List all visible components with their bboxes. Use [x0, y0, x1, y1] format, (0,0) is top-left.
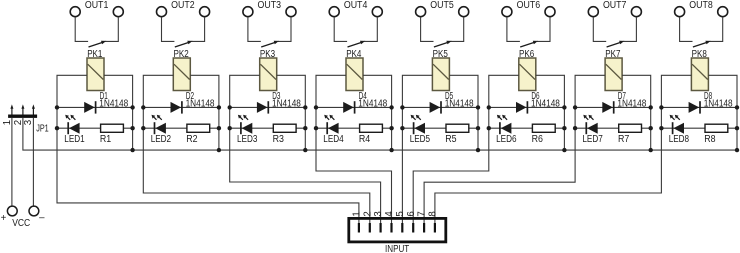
junction channel 8 left rail / LED row — [659, 126, 663, 130]
label D3 — [272, 91, 280, 102]
junction channel 7 right rail / bus — [649, 148, 653, 152]
relay PK6 coil — [519, 58, 536, 91]
junction channel 8 left rail / diode row — [659, 105, 663, 109]
relay PK2 coil — [173, 58, 190, 91]
wire channel 3 left rail and run to INPUT pin 3 — [230, 75, 381, 224]
svg-text:LED6: LED6 — [496, 134, 516, 145]
junction channel 5 right rail / diode row — [476, 105, 480, 109]
svg-text:R1: R1 — [100, 134, 111, 145]
svg-text:LED2: LED2 — [151, 134, 171, 145]
wire diode D8 row — [661, 106, 737, 108]
label R5 — [445, 134, 456, 145]
wire OUT4 left terminal to contact — [334, 17, 347, 41]
junction channel 2 right rail / LED row — [217, 126, 221, 130]
relay contact (switch blade) of PK4 — [348, 41, 366, 47]
terminal OUT5 right — [459, 7, 469, 17]
label PK7 — [605, 49, 620, 60]
wire LED2/R2 row — [143, 127, 219, 129]
label + — [1, 213, 7, 224]
diode D2 1N4148 — [171, 101, 182, 113]
resistor R4 — [360, 124, 383, 132]
label LED5 — [410, 134, 430, 145]
label R7 — [618, 134, 629, 145]
label R3 — [273, 134, 284, 145]
relay contact (switch blade) of PK1 — [89, 41, 107, 47]
wire OUT5 right terminal to contact — [451, 17, 464, 41]
connector INPUT pin 5 — [401, 223, 403, 233]
label PK5 — [433, 49, 448, 60]
junction channel 4 right rail / diode row — [389, 105, 393, 109]
label VCC — [12, 218, 30, 229]
wire diode D5 row — [402, 106, 478, 108]
junction channel 1 left rail / diode row — [55, 105, 59, 109]
label OUT5 — [430, 0, 454, 11]
svg-text:1N4148: 1N4148 — [704, 98, 733, 109]
junction channel 3 left rail / LED row — [228, 126, 232, 130]
wire channel 6 left rail and run to INPUT pin 6 — [413, 75, 519, 224]
junction channel 1 left rail / LED row — [55, 126, 59, 130]
terminal OUT7 right — [631, 7, 641, 17]
wire OUT1 left terminal to contact — [75, 17, 88, 41]
svg-text:OUT8: OUT8 — [689, 0, 713, 11]
junction channel 4 right rail / bus — [389, 148, 393, 152]
wire diode D3 row — [230, 106, 306, 108]
label OUT6 — [517, 0, 541, 11]
label JP1 pin number 3 — [23, 120, 34, 125]
svg-text:1N4148: 1N4148 — [445, 98, 474, 109]
svg-text:R7: R7 — [618, 134, 629, 145]
svg-text:1: 1 — [2, 120, 13, 125]
wire diode D4 row — [316, 106, 392, 108]
label - — [39, 212, 45, 223]
wire LED6/R6 row — [489, 127, 565, 129]
wire LED8/R8 row — [661, 127, 737, 129]
wire OUT4 right terminal to contact — [364, 17, 377, 41]
LED LED2 — [152, 115, 166, 134]
junction channel 1 right rail / LED row — [130, 126, 134, 130]
label INPUT pin number 4 — [384, 211, 395, 217]
svg-text:1N4148: 1N4148 — [358, 98, 387, 109]
svg-text:5: 5 — [395, 211, 406, 216]
wire channel 7 left rail and run to INPUT pin 7 — [424, 75, 605, 224]
svg-text:R8: R8 — [704, 134, 715, 145]
relay PK1 coil — [87, 58, 104, 91]
wire LED1/R1 row — [57, 127, 133, 129]
wire OUT8 right terminal to contact — [710, 17, 723, 41]
wire OUT3 right terminal to contact — [278, 17, 291, 41]
resistor R3 — [273, 124, 296, 132]
wire OUT7 left terminal to contact — [593, 17, 606, 41]
resistor R6 — [532, 124, 555, 132]
wire diode D1 row — [57, 106, 133, 108]
relay contact (switch blade) of PK5 — [434, 41, 452, 47]
label LED1 — [64, 134, 84, 145]
wire OUT5 left terminal to contact — [421, 17, 434, 41]
label INPUT pin number 2 — [362, 211, 373, 216]
junction channel 2 left rail / LED row — [141, 126, 145, 130]
svg-text:OUT3: OUT3 — [258, 0, 282, 11]
label D2 — [186, 91, 194, 102]
svg-text:VCC: VCC — [12, 218, 30, 229]
terminal OUT8 right — [718, 7, 728, 17]
label 1N4148 value of D5 — [445, 98, 474, 109]
wire channel 8 left rail and run to INPUT pin 8 — [435, 75, 692, 224]
junction channel 1 right rail / diode row — [130, 105, 134, 109]
wire channel 4 right rail down to bus — [363, 75, 392, 150]
junction channel 3 right rail / LED row — [303, 126, 307, 130]
svg-text:1N4148: 1N4148 — [186, 98, 215, 109]
label D6 — [531, 91, 539, 102]
label OUT2 — [171, 0, 195, 11]
wire JP1 pin3 to - terminal — [32, 118, 34, 206]
resistor R2 — [187, 124, 210, 132]
label OUT8 — [689, 0, 713, 11]
label INPUT pin number 6 — [406, 211, 417, 216]
connector INPUT pin 3 — [380, 223, 382, 233]
svg-text:R5: R5 — [445, 134, 456, 145]
svg-text:R2: R2 — [186, 134, 197, 145]
svg-text:1: 1 — [352, 211, 363, 216]
label OUT1 — [85, 0, 109, 11]
svg-text:LED1: LED1 — [64, 134, 84, 145]
junction channel 7 left rail / diode row — [573, 105, 577, 109]
diode D8 1N4148 — [689, 101, 700, 113]
label PK1 — [87, 49, 102, 60]
label 1N4148 value of D8 — [704, 98, 733, 109]
wire LED3/R3 row — [230, 127, 306, 129]
relay PK4 coil — [346, 58, 363, 91]
label D8 — [704, 91, 712, 102]
wire LED5/R5 row — [402, 127, 478, 129]
wire LED7/R7 row — [575, 127, 651, 129]
label LED7 — [582, 134, 602, 145]
junction channel 6 left rail / LED row — [487, 126, 491, 130]
relay contact (switch blade) of PK8 — [693, 41, 711, 47]
junction channel 3 right rail / bus — [303, 148, 307, 152]
label D5 — [445, 91, 453, 102]
svg-text:LED8: LED8 — [669, 134, 689, 145]
junction channel 7 right rail / diode row — [649, 105, 653, 109]
label OUT4 — [344, 0, 368, 11]
wire channel 8 right rail down to bus — [708, 75, 737, 150]
junction channel 3 left rail / diode row — [228, 105, 232, 109]
junction channel 7 right rail / LED row — [649, 126, 653, 130]
relay PK5 coil — [432, 58, 449, 91]
label LED2 — [151, 134, 171, 145]
label JP1 — [36, 123, 49, 134]
svg-text:1N4148: 1N4148 — [531, 98, 560, 109]
terminal OUT1 left — [70, 7, 80, 17]
label OUT3 — [258, 0, 282, 11]
resistor R8 — [705, 124, 728, 132]
label 1N4148 value of D1 — [99, 98, 128, 109]
label JP1 pin number 2 — [13, 120, 24, 125]
svg-text:+: + — [1, 213, 7, 224]
terminal VCC + — [7, 206, 17, 216]
connector JP1 pin 1 — [10, 104, 13, 114]
junction channel 8 right rail / bus — [735, 148, 739, 152]
connector INPUT pin 1 — [358, 223, 360, 233]
diode D4 1N4148 — [343, 101, 354, 113]
wire diode D6 row — [489, 106, 565, 108]
label R4 — [359, 134, 371, 145]
label INPUT — [385, 244, 409, 253]
label PK3 — [260, 49, 275, 60]
LED LED6 — [497, 115, 512, 134]
label LED6 — [496, 134, 516, 145]
svg-text:OUT1: OUT1 — [85, 0, 109, 11]
junction channel 7 left rail / LED row — [573, 126, 577, 130]
junction channel 4 left rail / diode row — [314, 105, 318, 109]
svg-text:OUT7: OUT7 — [603, 0, 627, 11]
junction channel 5 left rail / diode row — [400, 105, 404, 109]
junction channel 5 right rail / bus — [476, 148, 480, 152]
svg-text:OUT4: OUT4 — [344, 0, 368, 11]
relay PK7 coil — [605, 58, 622, 91]
connector JP1 pin 3 — [32, 104, 35, 114]
wire channel 3 right rail down to bus — [277, 75, 306, 150]
junction channel 8 right rail / LED row — [735, 126, 739, 130]
terminal OUT8 left — [675, 7, 685, 17]
terminal OUT4 right — [372, 7, 382, 17]
wire channel 2 right rail down to bus — [190, 75, 219, 150]
wire OUT3 left terminal to contact — [248, 17, 261, 41]
label 1N4148 value of D6 — [531, 98, 560, 109]
wire channel 7 right rail down to bus — [622, 75, 651, 150]
svg-text:4: 4 — [384, 211, 395, 217]
svg-text:3: 3 — [373, 211, 384, 216]
diode D5 1N4148 — [430, 101, 441, 113]
wire OUT7 right terminal to contact — [623, 17, 636, 41]
wire channel 4 left rail and run to INPUT pin 4 — [316, 75, 392, 224]
terminal OUT3 left — [243, 7, 253, 17]
svg-text:3: 3 — [23, 120, 34, 125]
svg-text:LED3: LED3 — [237, 134, 257, 145]
junction channel 2 right rail / diode row — [217, 105, 221, 109]
svg-text:R3: R3 — [273, 134, 284, 145]
label LED8 — [669, 134, 689, 145]
LED LED7 — [583, 115, 597, 134]
wire JP1 pin1 to + terminal — [11, 118, 13, 206]
label INPUT pin number 5 — [395, 211, 406, 216]
label PK2 — [174, 49, 189, 60]
wire channel 1 left rail and run to INPUT pin 1 — [57, 75, 359, 224]
label R8 — [704, 134, 715, 145]
label LED3 — [237, 134, 257, 145]
connector INPUT pin 2 — [369, 223, 371, 233]
wire OUT6 right terminal to contact — [537, 17, 550, 41]
LED LED5 — [411, 115, 425, 134]
label R2 — [186, 134, 197, 145]
wire channel 5 left rail straight to INPUT pin 5 — [402, 75, 432, 224]
relay PK3 coil — [260, 58, 277, 91]
svg-text:JP1: JP1 — [36, 123, 49, 134]
svg-text:LED5: LED5 — [410, 134, 430, 145]
relay contact (switch blade) of PK2 — [175, 41, 193, 47]
svg-text:8: 8 — [428, 211, 439, 216]
svg-text:INPUT: INPUT — [385, 244, 409, 253]
terminal OUT2 right — [200, 7, 210, 17]
LED LED4 — [324, 115, 338, 134]
diode D1 1N4148 — [84, 101, 95, 113]
svg-text:R4: R4 — [359, 134, 371, 145]
terminal OUT5 left — [416, 7, 426, 17]
junction channel 5 left rail / LED row — [400, 126, 404, 130]
junction channel 5 right rail / LED row — [476, 126, 480, 130]
label 1N4148 value of D2 — [186, 98, 215, 109]
relay PK8 coil — [691, 58, 708, 91]
label 1N4148 value of D7 — [617, 98, 646, 109]
label INPUT pin number 1 — [352, 211, 363, 216]
wire diode D7 row — [575, 106, 651, 108]
junction channel 6 right rail / LED row — [562, 126, 566, 130]
svg-text:OUT6: OUT6 — [517, 0, 541, 11]
terminal OUT1 right — [113, 7, 123, 17]
junction channel 1 right rail / bus — [130, 148, 134, 152]
resistor R7 — [619, 124, 642, 132]
wire channel 6 right rail down to bus — [536, 75, 565, 150]
label D4 — [359, 91, 368, 102]
wire channel 5 right rail down to bus — [449, 75, 478, 150]
svg-text:LED4: LED4 — [323, 134, 344, 145]
svg-text:R6: R6 — [532, 134, 543, 145]
wire OUT1 right terminal to contact — [105, 17, 118, 41]
wire channel 1 right rail down to bus — [104, 75, 133, 150]
wire LED4/R4 row — [316, 127, 392, 129]
wire OUT2 left terminal to contact — [162, 17, 175, 41]
terminal VCC - — [29, 206, 39, 216]
wire OUT2 right terminal to contact — [191, 17, 204, 41]
wire JP1 pin2 common bus to all relay rails — [23, 118, 737, 150]
junction channel 4 left rail / LED row — [314, 126, 318, 130]
junction channel 8 right rail / diode row — [735, 105, 739, 109]
junction channel 2 right rail / bus — [217, 148, 221, 152]
label R1 — [100, 134, 111, 145]
label OUT7 — [603, 0, 627, 11]
LED LED1 — [65, 115, 79, 134]
svg-text:1N4148: 1N4148 — [617, 98, 646, 109]
label INPUT pin number 8 — [428, 211, 439, 216]
wire OUT8 left terminal to contact — [680, 17, 693, 41]
label INPUT pin number 7 — [417, 211, 428, 216]
label 1N4148 value of D4 — [358, 98, 387, 109]
junction channel 3 right rail / diode row — [303, 105, 307, 109]
label LED4 — [323, 134, 344, 145]
junction channel 6 right rail / bus — [562, 148, 566, 152]
svg-text:2: 2 — [362, 211, 373, 216]
relay contact (switch blade) of PK7 — [607, 41, 625, 47]
relay contact (switch blade) of PK3 — [261, 41, 279, 47]
junction channel 4 right rail / LED row — [389, 126, 393, 130]
connector INPUT body — [349, 218, 446, 242]
label PK6 — [519, 49, 534, 60]
resistor R5 — [446, 124, 469, 132]
relay contact (switch blade) of PK6 — [520, 41, 538, 47]
wire OUT6 left terminal to contact — [507, 17, 520, 41]
connector INPUT pin 7 — [423, 223, 425, 233]
junction channel 2 left rail / diode row — [141, 105, 145, 109]
svg-text:–: – — [39, 212, 45, 223]
connector INPUT pin 6 — [412, 223, 414, 233]
diode D3 1N4148 — [257, 101, 268, 113]
svg-text:6: 6 — [406, 211, 417, 216]
connector JP1 body — [8, 115, 37, 118]
svg-text:1N4148: 1N4148 — [272, 98, 301, 109]
resistor R1 — [101, 124, 124, 132]
label D1 — [100, 91, 108, 102]
terminal OUT4 left — [329, 7, 339, 17]
svg-text:OUT5: OUT5 — [430, 0, 454, 11]
svg-text:7: 7 — [417, 211, 428, 216]
svg-text:1N4148: 1N4148 — [99, 98, 128, 109]
label PK8 — [692, 49, 707, 60]
label R6 — [532, 134, 543, 145]
diode D7 1N4148 — [602, 101, 613, 113]
junction channel 6 left rail / diode row — [487, 105, 491, 109]
label INPUT pin number 3 — [373, 211, 384, 216]
junction channel 6 right rail / diode row — [562, 105, 566, 109]
terminal OUT3 right — [286, 7, 296, 17]
LED LED8 — [670, 115, 684, 134]
label JP1 pin number 1 — [2, 120, 13, 125]
wire diode D2 row — [143, 106, 219, 108]
label D7 — [618, 91, 626, 102]
label PK4 — [346, 49, 362, 60]
terminal OUT2 left — [157, 7, 167, 17]
diode D6 1N4148 — [516, 101, 527, 113]
LED LED3 — [238, 115, 252, 134]
connector INPUT pin 8 — [434, 223, 436, 233]
terminal OUT6 left — [502, 7, 512, 17]
svg-text:OUT2: OUT2 — [171, 0, 195, 11]
wire channel 2 left rail and run to INPUT pin 2 — [143, 75, 369, 224]
connector JP1 pin 2 — [21, 104, 24, 114]
svg-text:LED7: LED7 — [582, 134, 602, 145]
terminal OUT6 right — [545, 7, 555, 17]
label 1N4148 value of D3 — [272, 98, 301, 109]
terminal OUT7 left — [588, 7, 598, 17]
connector INPUT pin 4 — [390, 223, 392, 233]
